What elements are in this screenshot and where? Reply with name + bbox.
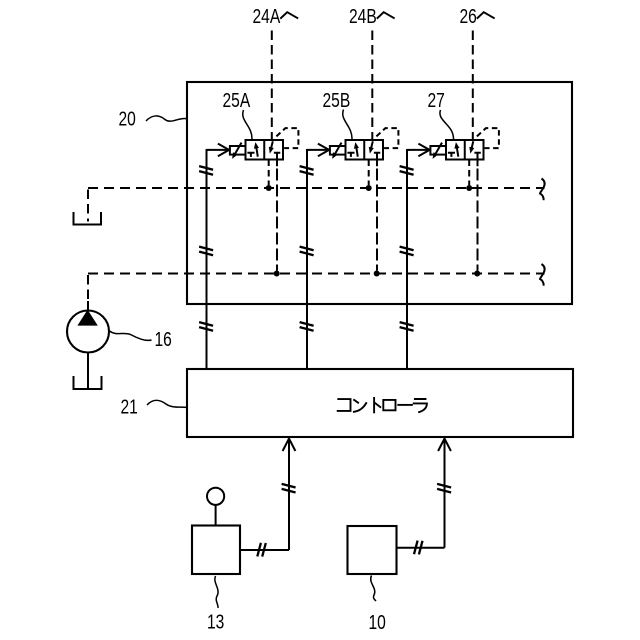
drain branch to tank: [87, 190, 89, 222]
svg-text:13: 13: [207, 611, 224, 633]
signal slashes on controller input (from 13): [282, 484, 296, 493]
signal slashes on wire to valve 27 (lower): [400, 322, 414, 331]
svg-text:24B: 24B: [349, 5, 377, 27]
svg-text:20: 20: [119, 108, 136, 130]
svg-text:24A: 24A: [253, 5, 281, 27]
pilot drain line from valve 25B to upper drain line: [368, 160, 370, 186]
lever stem: [215, 505, 217, 526]
solenoid valve 25B: [307, 128, 399, 166]
pilot drain line from valve 25A to upper drain line: [268, 160, 270, 186]
label: to 26: [460, 5, 494, 27]
signal slashes on controller input (from 10): [437, 484, 451, 493]
junction dot on upper drain line at valve 27: [466, 185, 472, 191]
wire: pump suction: [87, 353, 89, 390]
pilot line to 24B: [371, 31, 373, 141]
pilot supply branch from pump: [87, 275, 89, 303]
controller text (katakana: kontoro-ra): [338, 398, 427, 412]
wire: control signal from controller 21 to valve 25A: [207, 150, 209, 369]
tank symbol T1: [74, 212, 102, 225]
signal slashes on device 13 wire: [257, 543, 266, 557]
wire: signal from sensor 10: [397, 547, 445, 549]
tank symbol T2 (pump suction): [74, 376, 102, 389]
svg-text:26: 26: [460, 5, 477, 27]
solenoid valve 27: [407, 128, 499, 166]
leader line for label 10: [371, 576, 376, 602]
svg-text:10: 10: [369, 611, 386, 633]
pilot line from valve 27 to lower pilot line: [477, 169, 479, 271]
upper pilot drain line (node to tank): [88, 187, 545, 189]
svg-text:21: 21: [121, 396, 138, 418]
wire: control signal from controller 21 to valve 25B: [307, 150, 309, 369]
arrowhead into controller (from 13): [283, 439, 296, 451]
leader line for label 13: [215, 576, 218, 608]
wire: signal into controller (from 10): [444, 440, 446, 548]
label: to 24A: [253, 5, 298, 27]
signal slashes on wire to valve 25A (middle): [199, 247, 213, 256]
leader line for label 25A: [243, 110, 252, 140]
svg-text:16: 16: [155, 328, 172, 350]
solenoid valve 25A: [207, 128, 299, 166]
junction dot on upper drain line at valve 25B: [366, 185, 372, 191]
pilot line to 24A: [271, 31, 273, 141]
leader line for label 27: [440, 110, 454, 140]
pilot line from valve 25B to lower pilot line: [376, 169, 378, 271]
sensor box 10: [348, 526, 397, 574]
arrowhead into controller (from 10): [438, 439, 451, 451]
junction dot on lower pilot line at valve 27: [474, 271, 480, 277]
wire: control signal from controller 21 to valve 27: [407, 150, 409, 369]
label: to 24B: [349, 5, 394, 27]
leader line for label 20: [146, 116, 187, 121]
signal slashes on wire to valve 25B (middle): [300, 247, 314, 256]
svg-text:25A: 25A: [223, 89, 251, 111]
lower pilot supply line (from pump 16): [88, 272, 545, 274]
wire: signal from device 13: [240, 549, 289, 551]
leader line for label 25B: [343, 110, 352, 140]
break squiggle, upper drain line: [540, 179, 545, 201]
signal slashes on wire to valve 27 (upper): [400, 166, 414, 175]
signal slashes on wire to valve 27 (middle): [400, 247, 414, 256]
signal slashes on wire to valve 25A (upper): [199, 166, 213, 175]
hydraulic pump 16: [67, 311, 109, 353]
enclosure box 20 (valve unit): [187, 82, 572, 304]
pilot drain line from valve 27 to upper drain line: [468, 160, 470, 186]
pilot line to 26: [472, 31, 474, 141]
junction dot on lower pilot line at valve 25A: [274, 271, 280, 277]
wire: pump outlet: [87, 301, 89, 311]
operation device box 13: [192, 526, 240, 575]
signal slashes on wire to valve 25B (upper): [300, 166, 314, 175]
operation lever knob (13): [207, 488, 224, 505]
wire: signal into controller (from 13): [288, 440, 290, 550]
svg-text:27: 27: [428, 89, 445, 111]
signal slashes on wire to valve 25B (lower): [300, 322, 314, 331]
svg-text:25B: 25B: [323, 89, 351, 111]
junction dot on lower pilot line at valve 25B: [374, 271, 380, 277]
controller box 21: [187, 369, 573, 437]
junction dot on upper drain line at valve 25A: [266, 185, 272, 191]
signal slashes on sensor 10 wire: [414, 541, 423, 555]
break squiggle, lower pilot line: [540, 264, 545, 286]
pilot line from valve 25A to lower pilot line: [276, 169, 278, 271]
signal slashes on wire to valve 25A (lower): [199, 322, 213, 331]
leader line for label 16: [110, 331, 152, 340]
leader line for label 21: [147, 400, 187, 407]
